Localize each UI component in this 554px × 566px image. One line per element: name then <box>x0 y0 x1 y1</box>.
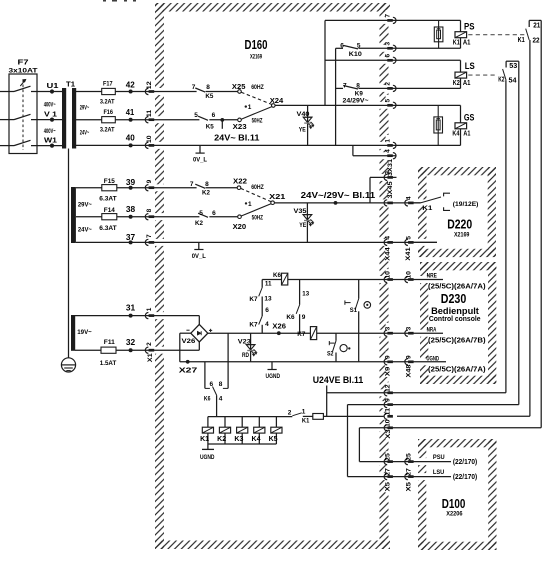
svg-text:5: 5 <box>384 99 391 103</box>
svg-text:6: 6 <box>384 54 391 58</box>
svg-text:S2: S2 <box>327 351 334 358</box>
svg-text:GS: GS <box>464 113 475 124</box>
svg-text:13: 13 <box>302 292 309 298</box>
svg-text:K1: K1 <box>518 37 525 44</box>
svg-text:1: 1 <box>248 104 252 111</box>
svg-text:(25/5C)(26A/7A): (25/5C)(26A/7A) <box>428 283 486 290</box>
svg-text:X24: X24 <box>270 96 284 105</box>
svg-text:21: 21 <box>533 23 540 30</box>
svg-text:X21: X21 <box>269 192 285 201</box>
svg-text:X27: X27 <box>179 366 198 375</box>
svg-text:7: 7 <box>192 84 196 91</box>
svg-text:6.3AT: 6.3AT <box>99 225 116 232</box>
svg-text:53: 53 <box>509 63 517 70</box>
svg-text:UGND: UGND <box>200 455 215 461</box>
svg-text:K5: K5 <box>205 93 213 100</box>
svg-text:K1: K1 <box>200 436 209 443</box>
svg-text:2: 2 <box>288 409 292 416</box>
svg-text:6.3AT: 6.3AT <box>99 195 116 202</box>
svg-text:D160: D160 <box>245 37 268 52</box>
svg-text:X41: X41 <box>405 247 412 261</box>
svg-text:8: 8 <box>356 82 360 89</box>
svg-text:2: 2 <box>146 342 153 346</box>
svg-text:31: 31 <box>126 303 136 313</box>
svg-text:7: 7 <box>190 181 194 188</box>
svg-text:22: 22 <box>532 38 539 45</box>
svg-text:V 1: V 1 <box>44 110 57 119</box>
svg-text:K9: K9 <box>355 92 364 98</box>
svg-text:24V~: 24V~ <box>78 226 92 233</box>
svg-text:29V~: 29V~ <box>78 201 92 208</box>
svg-text:4: 4 <box>384 236 391 240</box>
svg-text:K2: K2 <box>217 436 226 443</box>
svg-text:S1: S1 <box>350 307 358 314</box>
svg-text:0V_L: 0V_L <box>192 254 206 260</box>
svg-text:0V_L: 0V_L <box>193 157 207 163</box>
svg-text:11: 11 <box>146 110 153 117</box>
svg-text:D220: D220 <box>447 216 472 231</box>
svg-text:UGND: UGND <box>426 357 439 363</box>
svg-text:5: 5 <box>405 236 412 240</box>
svg-text:K5: K5 <box>206 123 214 130</box>
svg-text:X48: X48 <box>405 364 412 377</box>
svg-text:K4: K4 <box>452 131 459 138</box>
svg-text:X5: X5 <box>405 482 412 492</box>
svg-text:25: 25 <box>405 453 412 461</box>
svg-text:6: 6 <box>265 307 269 314</box>
svg-text:1.5AT: 1.5AT <box>100 360 117 367</box>
svg-text:LS: LS <box>465 61 475 72</box>
svg-text:4: 4 <box>219 396 223 403</box>
svg-text:K1: K1 <box>302 418 310 425</box>
svg-text:T1: T1 <box>66 82 75 89</box>
svg-text:24V~: 24V~ <box>80 130 90 136</box>
svg-text:U1: U1 <box>47 81 59 90</box>
svg-text:X3: X3 <box>385 429 392 439</box>
svg-text:8: 8 <box>206 84 210 91</box>
svg-text:4: 4 <box>405 196 412 200</box>
svg-text:24V~ Bl.11: 24V~ Bl.11 <box>214 133 260 142</box>
svg-text:K6: K6 <box>286 314 295 321</box>
svg-text:K2: K2 <box>498 77 504 84</box>
svg-text:7: 7 <box>343 82 347 89</box>
svg-text:1: 1 <box>248 201 252 208</box>
svg-text:K7: K7 <box>297 331 305 338</box>
svg-text:6: 6 <box>212 210 216 217</box>
svg-text:12: 12 <box>384 384 391 392</box>
svg-text:32: 32 <box>126 337 136 347</box>
svg-text:V40: V40 <box>297 111 310 118</box>
svg-text:RD: RD <box>242 352 249 359</box>
svg-text:4: 4 <box>384 149 391 153</box>
svg-text:X44: X44 <box>384 247 391 261</box>
svg-text:X1: X1 <box>147 353 154 362</box>
svg-text:F17: F17 <box>103 81 113 88</box>
svg-text:39: 39 <box>126 177 136 187</box>
svg-text:K2: K2 <box>202 189 210 196</box>
svg-text:60HZ: 60HZ <box>251 185 264 191</box>
svg-text:3x10AT: 3x10AT <box>9 67 38 74</box>
svg-text:3: 3 <box>384 171 391 175</box>
svg-text:V35: V35 <box>294 208 307 215</box>
svg-text:4: 4 <box>265 321 269 328</box>
svg-text:400V~: 400V~ <box>44 129 56 135</box>
svg-text:27: 27 <box>384 468 391 476</box>
svg-text:(22/170): (22/170) <box>453 474 477 481</box>
svg-text:9: 9 <box>384 355 391 359</box>
svg-text:24/29V~: 24/29V~ <box>343 98 370 104</box>
svg-text:7: 7 <box>384 14 391 18</box>
svg-text:X23: X23 <box>233 122 247 131</box>
svg-text:A1: A1 <box>463 40 471 47</box>
svg-text:NRA: NRA <box>427 328 437 334</box>
svg-text:(22/170): (22/170) <box>453 459 477 466</box>
svg-text:6: 6 <box>212 112 216 119</box>
svg-text:24V~/29V~ Bl.11: 24V~/29V~ Bl.11 <box>301 191 376 200</box>
svg-text:X2169: X2169 <box>250 54 262 61</box>
svg-text:X9: X9 <box>384 366 391 376</box>
svg-text:(25/5C)(26A/7B): (25/5C)(26A/7B) <box>428 338 486 345</box>
svg-text:(19/12E): (19/12E) <box>453 201 479 208</box>
svg-text:X26: X26 <box>272 321 286 330</box>
svg-text:K7: K7 <box>249 296 258 303</box>
svg-text:(25/5C)(26A/7A): (25/5C)(26A/7A) <box>428 367 486 374</box>
svg-text:1: 1 <box>384 139 391 143</box>
svg-text:NRE: NRE <box>427 273 437 279</box>
svg-text:13: 13 <box>264 297 272 303</box>
svg-text:3.2AT: 3.2AT <box>100 127 115 134</box>
svg-text:K3: K3 <box>234 436 243 443</box>
svg-text:5: 5 <box>357 42 361 49</box>
svg-text:K2: K2 <box>195 220 203 227</box>
svg-text:42: 42 <box>126 79 135 89</box>
svg-text:8: 8 <box>146 208 153 212</box>
svg-text:PSU: PSU <box>433 454 445 461</box>
svg-text:3: 3 <box>405 326 412 330</box>
svg-text:K6: K6 <box>204 396 211 403</box>
svg-text:1: 1 <box>302 409 306 416</box>
svg-text:3: 3 <box>384 42 391 46</box>
svg-text:19V~: 19V~ <box>77 329 92 336</box>
svg-text:X22: X22 <box>233 176 247 185</box>
svg-text:F16: F16 <box>103 109 113 116</box>
svg-text:400V~: 400V~ <box>44 103 56 109</box>
svg-text:K7: K7 <box>249 322 258 329</box>
svg-text:3.2AT: 3.2AT <box>100 98 115 105</box>
svg-text:1: 1 <box>146 307 153 311</box>
svg-text:X2169: X2169 <box>454 232 470 239</box>
svg-text:V23: V23 <box>238 339 251 346</box>
svg-text:YE: YE <box>299 126 307 133</box>
svg-text:A1: A1 <box>463 80 471 87</box>
svg-text:UGND: UGND <box>266 374 281 380</box>
svg-text:5: 5 <box>199 210 203 217</box>
svg-text:9: 9 <box>146 179 153 183</box>
svg-text:11: 11 <box>265 282 272 288</box>
svg-text:K6: K6 <box>273 272 281 279</box>
svg-text:F11: F11 <box>104 339 115 346</box>
svg-text:7: 7 <box>146 234 153 238</box>
svg-text:10: 10 <box>405 271 412 279</box>
svg-text:25: 25 <box>384 453 391 461</box>
svg-text:11: 11 <box>384 408 391 416</box>
svg-text:X5: X5 <box>384 482 391 492</box>
svg-text:10: 10 <box>384 419 391 427</box>
svg-text:K10: K10 <box>349 52 363 58</box>
svg-text:9: 9 <box>302 314 306 321</box>
svg-text:40: 40 <box>126 133 135 143</box>
svg-text:K4: K4 <box>252 436 261 443</box>
svg-text:D100: D100 <box>442 496 466 511</box>
svg-text:50HZ: 50HZ <box>252 118 263 124</box>
svg-text:K5: K5 <box>269 436 278 443</box>
svg-text:D230: D230 <box>441 291 467 306</box>
svg-text:37: 37 <box>126 232 136 242</box>
svg-text:27: 27 <box>405 468 412 476</box>
svg-text:PS: PS <box>464 22 475 33</box>
svg-text:F15: F15 <box>104 178 115 185</box>
svg-text:10: 10 <box>146 135 153 143</box>
svg-text:6: 6 <box>340 42 344 49</box>
svg-text:U24VE Bl.11: U24VE Bl.11 <box>313 375 364 385</box>
svg-text:50HZ: 50HZ <box>252 216 264 222</box>
svg-text:F7: F7 <box>18 60 29 67</box>
svg-text:9: 9 <box>384 398 391 402</box>
svg-text:29V~: 29V~ <box>80 105 90 111</box>
svg-text:8: 8 <box>205 181 209 188</box>
svg-text:38: 38 <box>126 204 136 214</box>
svg-text:5: 5 <box>194 112 198 119</box>
svg-text:X25: X25 <box>232 82 246 91</box>
svg-text:3: 3 <box>384 326 391 330</box>
svg-text:V26: V26 <box>182 338 196 345</box>
svg-text:K1: K1 <box>453 40 460 47</box>
svg-text:K2: K2 <box>453 80 460 87</box>
svg-text:LSU: LSU <box>433 469 445 476</box>
svg-text:YE: YE <box>299 222 307 229</box>
svg-text:60HZ: 60HZ <box>251 85 264 91</box>
svg-text:3X45: 3X45 <box>387 181 394 198</box>
svg-text:12: 12 <box>146 81 153 89</box>
svg-text:10: 10 <box>384 271 391 279</box>
svg-text:2: 2 <box>384 82 391 86</box>
svg-text:X20: X20 <box>233 222 247 231</box>
svg-text:K1: K1 <box>422 205 432 212</box>
svg-text:8: 8 <box>219 381 223 388</box>
svg-text:Control console: Control console <box>429 314 481 323</box>
svg-text:F14: F14 <box>104 207 115 214</box>
svg-text:54: 54 <box>509 78 517 85</box>
svg-text:W1: W1 <box>44 136 57 145</box>
svg-text:A1: A1 <box>463 131 470 138</box>
svg-text:41: 41 <box>126 107 135 117</box>
svg-text:X2206: X2206 <box>446 511 463 518</box>
svg-text:9: 9 <box>405 355 412 359</box>
